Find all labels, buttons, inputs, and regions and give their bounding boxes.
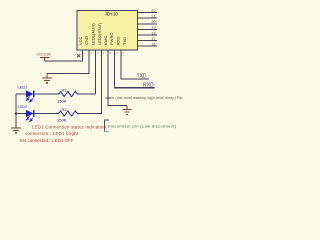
right pin 18 [138, 34, 157, 36]
junction dot at LED2 tap [15, 112, 18, 115]
wire pin5 IO8 to ground [108, 50, 127, 106]
right pin 21 [138, 17, 157, 19]
svg-text:LED1: LED1 [18, 84, 28, 89]
LED D2 wire cathode side [34, 113, 57, 115]
svg-text:16: 16 [151, 43, 155, 47]
svg-text:22: 22 [151, 9, 155, 13]
svg-text:VCC3.3V: VCC3.3V [36, 53, 51, 57]
svg-text:21: 21 [151, 15, 155, 19]
svg-text:wake (low-level wakeup,high-le: wake (low-level wakeup,high-level sleep)… [106, 96, 183, 100]
no-ERC cross on VCC pin [77, 54, 80, 57]
svg-text:17: 17 [151, 37, 155, 41]
wire pin7 to TXD [121, 50, 149, 79]
wire LED common bus [15, 94, 17, 128]
ground symbol (bottom-left) [11, 128, 21, 133]
annotation bracket for disconnect note [104, 120, 109, 131]
svg-text:GND: GND [84, 36, 89, 45]
bottom pin number 1 [83, 52, 126, 54]
LED D2 symbol [26, 110, 34, 117]
LED D2 light arrows [26, 116, 33, 121]
svg-text:150R: 150R [57, 118, 67, 123]
svg-text:LED1(ALIN): LED1(ALIN) [91, 23, 96, 45]
right pin 19 [138, 28, 157, 30]
ground symbol (middle) [123, 106, 132, 115]
svg-text:20: 20 [151, 20, 155, 24]
svg-text:LED1 Connection status indicat: LED1 Connection status indication [32, 125, 107, 130]
svg-text:VCC: VCC [78, 36, 83, 45]
svg-text:R1: R1 [62, 87, 68, 92]
wire pin2 GND [47, 50, 89, 74]
LED D2 wire anode side [16, 113, 26, 115]
power symbol VCC bar [40, 57, 49, 61]
resistor R2 [57, 111, 80, 116]
svg-text:TXD: TXD [122, 37, 127, 45]
right pin 20 [138, 23, 157, 25]
right pin numbers 22-16 [151, 9, 155, 47]
svg-text:Disconnect pin (Low disconnect: Disconnect pin (Low disconnect) [108, 123, 177, 128]
resistor R1 [57, 91, 80, 96]
svg-text:R2: R2 [62, 107, 68, 112]
svg-text:18: 18 [151, 31, 155, 35]
right pin 16 [138, 45, 157, 47]
svg-text:PWRC: PWRC [109, 33, 114, 45]
LED D1 symbol [26, 90, 34, 97]
svg-text:150R: 150R [57, 99, 67, 104]
svg-text:RXD: RXD [116, 36, 121, 45]
wire pin3 to R1 [79, 50, 96, 94]
svg-text:LED2(STAT): LED2(STAT) [97, 22, 102, 45]
ground symbol (mid-left) [42, 74, 52, 83]
svg-text:Set connected : LED1 OFF: Set connected : LED1 OFF [20, 138, 74, 143]
sheet background [0, 0, 200, 146]
wire pin4 to R2 [79, 50, 102, 114]
svg-text:RXD: RXD [143, 83, 154, 89]
right pin 17 [138, 40, 157, 42]
IC U1 JDY-10 module body [77, 11, 138, 51]
svg-text:connection : LED1 bright: connection : LED1 bright [25, 131, 79, 136]
right pin 22 [138, 13, 157, 47]
LED D1 wire anode side [16, 93, 26, 95]
wire VCC rail to pin1 [45, 50, 83, 61]
svg-text:JDY-10: JDY-10 [105, 12, 118, 17]
svg-text:LED2: LED2 [18, 104, 28, 109]
LED D1 light arrows [26, 97, 33, 102]
svg-text:TXD: TXD [137, 74, 147, 80]
svg-text:19: 19 [151, 26, 155, 30]
svg-text:IO8C: IO8C [103, 36, 108, 45]
LED D1 wire cathode side [34, 93, 57, 95]
wire pin6 to RXD [115, 50, 155, 88]
